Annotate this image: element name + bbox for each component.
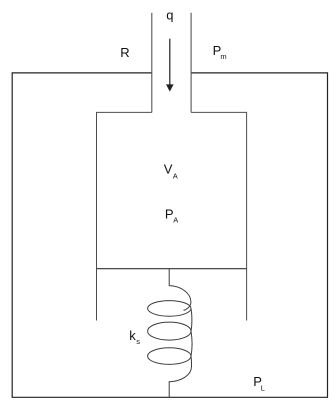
svg-text:V: V bbox=[164, 162, 173, 177]
airway tube left wall bbox=[151, 13, 153, 113]
airway tube right wall bbox=[190, 13, 192, 113]
svg-text:q: q bbox=[166, 7, 173, 22]
outer chamber box (pleural space) bbox=[12, 73, 327, 397]
svg-text:s: s bbox=[136, 337, 140, 346]
svg-text:m: m bbox=[220, 52, 226, 61]
svg-text:R: R bbox=[120, 45, 129, 60]
svg-text:P: P bbox=[165, 207, 174, 222]
svg-text:A: A bbox=[173, 216, 178, 225]
piston plate bbox=[97, 268, 247, 270]
flow arrow q bbox=[166, 39, 174, 92]
svg-text:A: A bbox=[173, 172, 178, 181]
alveolar cylinder walls bbox=[97, 112, 247, 320]
svg-text:k: k bbox=[129, 328, 136, 343]
spring ks bbox=[148, 269, 192, 398]
svg-text:L: L bbox=[261, 383, 265, 392]
